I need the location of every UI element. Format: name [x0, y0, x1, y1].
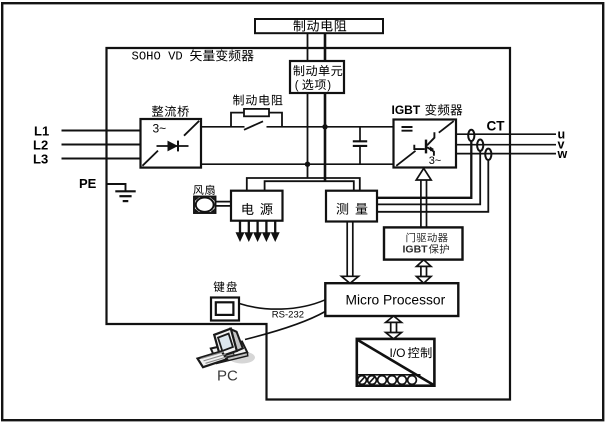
svg-text:IGBT: IGBT [403, 244, 429, 256]
inverter enclosure box [107, 48, 511, 400]
svg-text:IGBT: IGBT [392, 103, 421, 117]
power supply box [231, 191, 283, 221]
label IGBT inverter [392, 103, 463, 117]
node v [558, 138, 565, 152]
svg-text:3~: 3~ [153, 122, 167, 136]
wire CT2 to measurement [377, 151, 480, 205]
node w [557, 147, 568, 161]
svg-text:(: ( [295, 80, 299, 92]
microprocessor box [325, 283, 458, 316]
CT sensor 2 [477, 140, 483, 151]
capacitor C (DC link) [353, 127, 367, 164]
wire DC- bus (bottom) [201, 163, 394, 165]
CT sensor 3 [485, 149, 491, 160]
label RS-232 [272, 310, 304, 321]
arrow measurement to microprocessor [342, 222, 359, 284]
wire braking unit to DC+ bus [324, 93, 327, 181]
svg-text:L3: L3 [33, 152, 48, 167]
wire PC to microprocessor [245, 312, 325, 340]
braking resistor box (top) [255, 19, 383, 33]
svg-text:PC: PC [217, 368, 238, 385]
svg-text:L2: L2 [33, 138, 48, 153]
node L1 [34, 124, 49, 139]
node u [558, 128, 566, 142]
label fan [193, 185, 214, 195]
svg-text:Micro Processor: Micro Processor [346, 293, 446, 308]
measurement box [326, 191, 377, 222]
arrow gate driver to microprocessor [417, 260, 432, 283]
power output arrows [236, 221, 280, 242]
wire CT1 to measurement [377, 141, 471, 198]
svg-text:3~: 3~ [429, 155, 442, 167]
PC icon [198, 329, 256, 368]
svg-text:RS-232: RS-232 [272, 310, 304, 321]
wire DC- junction to bracket [307, 164, 309, 178]
node PE [79, 176, 97, 191]
wire braking unit to DC- bus [307, 93, 309, 164]
svg-text:I/O: I/O [390, 346, 406, 360]
keyboard box [211, 298, 239, 321]
rectifier bridge U1 [141, 119, 202, 168]
wire braking resistor to braking unit (left) [307, 33, 309, 61]
wire PE [107, 184, 126, 191]
label SOHO VD vector inverter [132, 49, 254, 63]
braking resistor R with bypass [231, 94, 282, 126]
svg-text:PE: PE [79, 176, 97, 191]
node L2 [33, 138, 48, 153]
svg-text:SOHO VD: SOHO VD [132, 50, 183, 64]
wire L2 [62, 144, 141, 146]
wire DC feed inner bracket [265, 181, 354, 191]
IGBT inverter U2 [394, 120, 457, 168]
ground [115, 191, 135, 201]
braking unit (optional) box [290, 61, 344, 93]
arrow microprocessor to I/O [386, 316, 402, 339]
arrow gate driver to IGBT [416, 168, 431, 227]
label keyboard [214, 281, 237, 292]
svg-text:w: w [557, 147, 568, 161]
gate driver / IGBT protection box [384, 227, 463, 259]
I/O control box [357, 339, 435, 386]
wire braking resistor to braking unit (right) [324, 33, 327, 61]
label PC [217, 368, 238, 385]
wire output u [456, 133, 556, 135]
wire keyboard to microprocessor (RS-232) [239, 300, 325, 309]
svg-text:): ) [327, 80, 331, 92]
switch blade [244, 121, 263, 130]
wire fan to power supply [216, 202, 232, 206]
wire L3 [62, 158, 141, 160]
wire L1 [62, 130, 141, 132]
rectifier bridge label [152, 106, 189, 117]
fan icon [194, 197, 216, 214]
node L3 [33, 152, 48, 167]
junction dot DC+ [322, 124, 327, 129]
junction dot DC- [305, 162, 310, 167]
CT sensor 1 [468, 130, 474, 141]
wire DC+ bus (top) [201, 126, 394, 128]
label CT [487, 119, 506, 134]
svg-text:CT: CT [487, 119, 506, 134]
svg-text:L1: L1 [34, 124, 49, 139]
transistor Q1 (IGBT symbol) [414, 132, 434, 156]
wire output v [456, 144, 556, 146]
wire DC feed outer bracket [247, 178, 360, 191]
wire output w [456, 153, 556, 155]
wire CT3 to measurement [377, 160, 488, 212]
